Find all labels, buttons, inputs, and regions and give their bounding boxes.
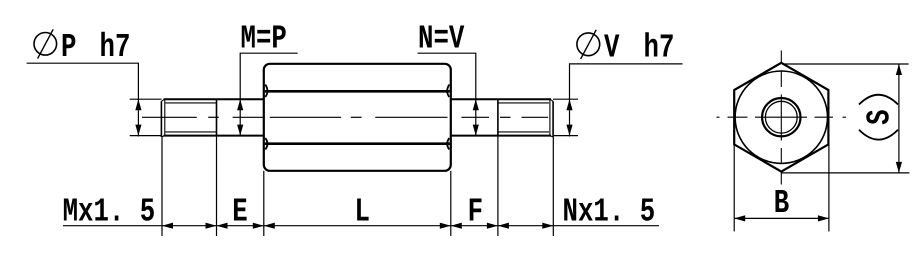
hex body outline [264, 64, 451, 171]
extension line stud/shoulder boundary [216, 136, 218, 236]
end view thread minor circle [765, 101, 797, 133]
S dimension extension line top [782, 63, 909, 65]
centerline of side view [142, 116, 548, 118]
dia V dimension arrows [553, 98, 578, 137]
end view stud major circle [762, 98, 800, 136]
svg-text:h7: h7 [644, 29, 675, 67]
svg-text:P: P [61, 28, 76, 66]
extension line right shoulder/stud boundary [497, 136, 499, 236]
left shoulder E [217, 99, 264, 135]
B dimension extension line left [733, 145, 735, 231]
extension line right stud end [552, 137, 554, 236]
svg-text:N=V: N=V [418, 19, 465, 57]
S dimension line [898, 64, 900, 173]
svg-text:Mx1. 5: Mx1. 5 [63, 193, 156, 231]
svg-text:F: F [468, 193, 483, 231]
bottom dimension arrowheads [162, 223, 553, 229]
hex body vertex line upper [265, 90, 450, 93]
svg-text:h7: h7 [100, 28, 131, 66]
M=P label and leader [240, 19, 298, 99]
B dimension extension line right [828, 145, 830, 231]
dia V leader and label [570, 29, 683, 98]
N=V label and leader [418, 19, 476, 99]
svg-text:Nx1. 5: Nx1. 5 [563, 193, 656, 231]
dia P dimension arrows [130, 98, 162, 137]
end view horizontal centerline [717, 116, 847, 118]
right stud thread body [498, 99, 553, 137]
hex body vertex line lower [265, 142, 450, 145]
svg-text:B: B [774, 184, 790, 222]
extension line hex left [263, 171, 265, 236]
svg-text:V: V [604, 29, 620, 67]
N=V dimension arrows [473, 99, 479, 136]
label (S) parenthesis arcs [859, 95, 898, 105]
extension line hex right [450, 171, 452, 236]
end view hexagon [734, 63, 828, 172]
end view chamfer circle [735, 71, 827, 163]
svg-text:S: S [861, 109, 899, 124]
S dimension extension line bottom [781, 172, 909, 174]
right shoulder F [451, 99, 498, 135]
dia P leader and label [27, 28, 139, 98]
chamfer leaf arcs on hex body [265, 85, 449, 150]
M=P dimension arrows [237, 99, 243, 136]
B dimension line [734, 217, 829, 219]
end view vertical centerline [780, 51, 782, 185]
svg-text:M=P: M=P [241, 19, 287, 57]
extension line left stud end [161, 137, 163, 236]
left stud thread body [161, 99, 216, 137]
svg-text:L: L [354, 193, 369, 231]
svg-text:E: E [232, 193, 247, 231]
bottom dimension baseline [63, 225, 659, 227]
